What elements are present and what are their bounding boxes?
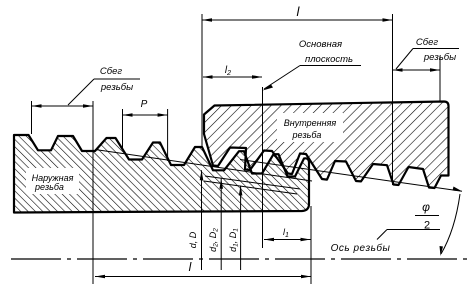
dimension l2 <box>203 65 263 79</box>
thread axis centerline <box>11 258 470 260</box>
dimension l1 <box>264 206 311 284</box>
diameter leader d1,D1 <box>228 186 242 271</box>
internal thread body (внутренняя резьба) <box>204 102 449 189</box>
svg-text:плоскость: плоскость <box>305 54 353 65</box>
svg-text:Внутренняя: Внутренняя <box>284 118 337 128</box>
label сбег резьбы (left) <box>68 66 140 105</box>
angle phi/2 <box>377 187 462 257</box>
cone generator line LB to phi/2 arrow <box>240 160 462 192</box>
label наружная резьба <box>26 168 79 194</box>
left thread runout dimension <box>32 101 94 284</box>
right thread runout dimension <box>393 56 441 102</box>
basic plane line (основная плоскость) <box>262 87 264 248</box>
svg-text:Ось резьбы: Ось резьбы <box>331 242 391 254</box>
external thread body (наружная резьба) <box>14 135 309 213</box>
minor line L3 <box>204 181 297 194</box>
label основная плоскость <box>263 39 362 91</box>
svg-text:резьбы: резьбы <box>100 82 133 93</box>
pitch line L2 <box>205 176 300 189</box>
diameter leader d2,D2 <box>208 179 223 270</box>
svg-text:резьба: резьба <box>292 130 322 140</box>
top dimension l <box>202 4 393 185</box>
svg-text:Основная: Основная <box>299 39 342 50</box>
svg-text:Сбег: Сбег <box>416 37 438 48</box>
svg-text:Сбег: Сбег <box>100 66 122 77</box>
cone generator line LA (major diameter) <box>95 150 312 182</box>
svg-text:φ: φ <box>422 200 430 214</box>
diameter leader d,D <box>188 170 203 270</box>
svg-text:P: P <box>141 99 148 110</box>
svg-text:d, D: d, D <box>188 231 198 248</box>
svg-text:l: l <box>189 260 192 274</box>
svg-text:резьба: резьба <box>34 182 64 192</box>
label сбег резьбы (right) <box>396 37 459 69</box>
pitch P dimension <box>123 99 168 161</box>
label внутренняя резьба <box>277 113 343 142</box>
bottom dimension l <box>95 260 311 278</box>
